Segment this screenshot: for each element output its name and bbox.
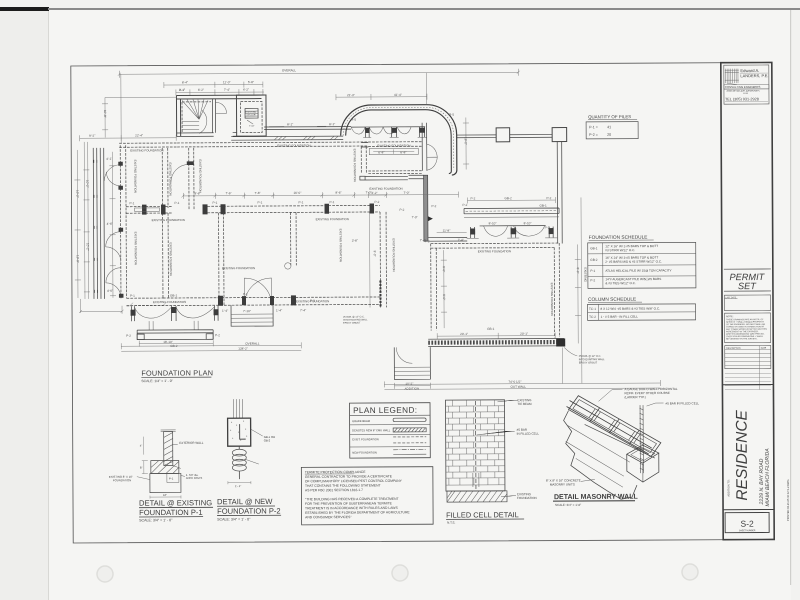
svg-text:AS PER FBC 2001 SECTION 1: AS PER FBC 2001 SECTION 1816.1.7	[305, 488, 363, 492]
svg-text:74'-0 1/2": 74'-0 1/2"	[508, 380, 521, 384]
svg-text:PLAN LEGEND:: PLAN LEGEND:	[353, 406, 417, 415]
leader: exterior wall	[173, 443, 178, 445]
svg-text:FOUNDATION P-2: FOUNDATION P-2	[217, 506, 281, 515]
quantity of piles table	[586, 114, 638, 139]
svg-text:EXISTING FOUNDATION: EXISTING FOUNDATION	[130, 148, 163, 152]
door swings on left wall	[104, 165, 120, 181]
svg-text:8'-1": 8'-1"	[287, 122, 293, 126]
addition stair bottom-center	[394, 347, 430, 391]
svg-text:10'-2": 10'-2"	[85, 180, 89, 188]
svg-text:ANCR BOLTS: ANCR BOLTS	[186, 476, 203, 480]
stair block bottom wall	[177, 133, 237, 137]
svg-text:EXISTING FOUNDATION: EXISTING FOUNDATION	[392, 238, 396, 271]
long diagonal reinf	[585, 424, 655, 458]
corridor beam between cellar and curve	[264, 127, 351, 130]
residence section box	[722, 384, 774, 509]
svg-text:FOUNDATION P-1: FOUNDATION P-1	[139, 508, 203, 517]
svg-text:4'-2": 4'-2"	[243, 88, 249, 92]
svg-text:SCALE: 3/4" = 1' - 0": SCALE: 3/4" = 1' - 0"	[217, 517, 251, 521]
svg-text:41: 41	[607, 125, 611, 129]
termite note box	[301, 467, 433, 525]
svg-text:21'-3": 21'-3"	[347, 93, 355, 97]
svg-text:2- #5 BARS MID & #3 STIRR W/12: 2- #5 BARS MID & #3 STIRR W/12" O.C.	[605, 260, 662, 264]
anchor detail marks	[173, 465, 181, 468]
svg-text:PRINTED 04-21-05 10:12 S-2.: PRINTED 04-21-05 10:12 S-2.DWG	[786, 479, 790, 521]
top beam + dims of colonnade	[467, 197, 555, 203]
svg-text:7'-10": 7'-10"	[249, 126, 255, 128]
svg-text:16": 16"	[163, 493, 167, 497]
svg-text:TEL (305) 931-2928: TEL (305) 931-2928	[725, 97, 759, 101]
leader existing foundation	[501, 496, 516, 497]
interior left rooms walls	[126, 148, 173, 298]
svg-text:P-2: P-2	[546, 196, 551, 200]
svg-text:P-1: P-1	[329, 200, 334, 204]
front rail lines	[567, 400, 652, 454]
svg-text:OUT WALL: OUT WALL	[510, 385, 526, 389]
svg-text:P-2: P-2	[463, 203, 468, 207]
svg-text:#5 BAR IN FILLED CELL: #5 BAR IN FILLED CELL	[666, 401, 700, 405]
svg-text:8'-0": 8'-0"	[442, 294, 446, 300]
svg-text:TC-1: TC-1	[589, 307, 596, 311]
svg-text:SCALE: 1/4" = 1' - 0": SCALE: 1/4" = 1' - 0"	[141, 379, 173, 383]
svg-text:P-1: P-1	[590, 269, 595, 273]
leader #5 bar	[477, 431, 515, 435]
svg-text:P-1: P-1	[129, 201, 134, 205]
svg-text:10'-2": 10'-2"	[75, 190, 79, 198]
dim row over curve	[336, 94, 427, 100]
svg-text:EXISTING FOUNDATION: EXISTING FOUNDATION	[222, 266, 255, 270]
long bottom dim line	[384, 380, 660, 387]
svg-text:#3 STIRR W/12" O.C.: #3 STIRR W/12" O.C.	[605, 248, 635, 252]
svg-text:10'-2": 10'-2"	[86, 243, 90, 251]
svg-text:P-2: P-2	[432, 204, 437, 208]
svg-text:9'-6": 9'-6"	[194, 191, 200, 195]
svg-text:P-1: P-1	[257, 201, 262, 205]
svg-text:GB-1: GB-1	[487, 327, 495, 331]
svg-text:R-5: R-5	[449, 113, 454, 117]
svg-text:& #3 TIES W/12" O.C.: & #3 TIES W/12" O.C.	[605, 281, 636, 285]
svg-text:8'-1": 8'-1"	[329, 122, 335, 126]
svg-text:4": 4"	[140, 444, 143, 448]
hatched grade beam under corridor	[231, 136, 343, 140]
title block border	[721, 62, 774, 539]
logo hatch grid	[725, 69, 739, 85]
svg-text:4'-6": 4'-6"	[107, 222, 113, 226]
svg-text:20'-1": 20'-1"	[520, 332, 528, 336]
inner dashed room	[219, 213, 224, 306]
overall top dimension line	[118, 69, 520, 78]
svg-text:P-2: P-2	[374, 200, 379, 204]
svg-text:P-1 =: P-1 =	[589, 125, 598, 129]
svg-text:GB-1: GB-1	[590, 246, 598, 250]
svg-text:EXISTING FOUNDATION: EXISTING FOUNDATION	[198, 159, 202, 192]
walls below kitchen	[365, 176, 408, 180]
svg-text:DETAIL @ EXISTING: DETAIL @ EXISTING	[139, 498, 212, 507]
dims	[368, 192, 458, 198]
svg-text:GB-1: GB-1	[540, 204, 548, 208]
swag drapes	[135, 307, 172, 318]
svg-text:AND CONSUMER SERVICES": AND CONSUMER SERVICES"	[305, 515, 352, 519]
svg-text:7'-6": 7'-6"	[225, 191, 231, 195]
brick wall outline	[446, 400, 505, 491]
grade beam GB-2	[137, 330, 213, 340]
jamb blocks	[118, 162, 123, 166]
right-mid vertical wall	[370, 211, 396, 307]
svg-text:SET: SET	[738, 281, 757, 291]
svg-text:8'-10": 8'-10"	[524, 221, 532, 225]
right vertical dim chains	[561, 197, 581, 383]
leader cmu label	[581, 479, 595, 481]
revision table	[725, 345, 771, 368]
svg-text:8'-4": 8'-4"	[182, 80, 188, 84]
inner dashed offset	[182, 102, 211, 133]
svg-text:DETAIL @ NEW: DETAIL @ NEW	[217, 497, 273, 506]
door blocks on mid wall	[142, 205, 147, 215]
dim extension vertical at curve start	[425, 73, 427, 105]
plan legend box	[350, 403, 431, 458]
svg-text:SCALE: 3/4" = 1'-0": SCALE: 3/4" = 1'-0"	[555, 503, 581, 507]
overall bottom dim line of left part	[121, 342, 301, 349]
main top wall of middle room	[177, 142, 368, 148]
svg-text:FOUNDATION: FOUNDATION	[517, 496, 537, 500]
svg-text:6'-2": 6'-2"	[198, 88, 204, 92]
svg-text:EXISTING FOUNDATION: EXISTING FOUNDATION	[550, 283, 554, 316]
svg-text:8'-10": 8'-10"	[489, 221, 497, 225]
second bottom dim row	[121, 349, 660, 391]
leader #5 bar in filled cell	[647, 403, 664, 406]
svg-text:41'-4": 41'-4"	[394, 93, 402, 97]
steps stoop below middle wall	[222, 305, 306, 326]
left exterior wall	[120, 145, 173, 298]
sheet frame	[71, 62, 774, 543]
svg-text:P-2: P-2	[310, 299, 315, 303]
dim left	[142, 461, 148, 474]
svg-text:P-2: P-2	[590, 278, 595, 282]
inner porch dim vertical	[109, 152, 116, 298]
left outer dim chain	[74, 150, 81, 298]
svg-text:QUANTITY OF PILES: QUANTITY OF PILES	[588, 114, 631, 119]
colonnade swag arches	[484, 226, 508, 237]
paper left edge line	[48, 11, 49, 600]
svg-text:GB-2: GB-2	[590, 258, 598, 262]
svg-text:S-2: S-2	[740, 519, 754, 529]
svg-text:DATE: DATE	[761, 347, 767, 350]
svg-text:3'-1": 3'-1"	[179, 88, 185, 92]
svg-text:TC-2: TC-2	[589, 315, 596, 319]
svg-text:EXISTING FOUNDATION: EXISTING FOUNDATION	[169, 242, 173, 275]
svg-text:1 - # 5 BAR - IN FILL CELL: 1 - # 5 BAR - IN FILL CELL	[601, 315, 639, 319]
svg-text:OVERALL: OVERALL	[245, 342, 260, 346]
svg-text:EXISTING FOUNDATION: EXISTING FOUNDATION	[168, 162, 172, 195]
leader existing tie beam	[498, 400, 518, 402]
svg-text:6'-8": 6'-8"	[378, 150, 384, 154]
foundation block	[150, 473, 181, 492]
punch hole bottom center	[392, 565, 408, 581]
svg-text:10'-8": 10'-8"	[103, 110, 107, 118]
pointed double door arch	[244, 278, 271, 305]
svg-text:EPOXY GROUT: EPOXY GROUT	[579, 361, 598, 364]
wall between left rooms	[126, 206, 172, 213]
svg-text:7'-8": 7'-8"	[254, 191, 260, 195]
paper right edge line	[790, 10, 791, 585]
svg-text:9'-0": 9'-0"	[373, 250, 377, 256]
svg-text:7'-4": 7'-4"	[224, 88, 230, 92]
svg-text:GB-2: GB-2	[504, 196, 512, 200]
svg-text:EXISTING FOUNDATION: EXISTING FOUNDATION	[478, 249, 511, 253]
svg-text:SHEET NUMBER: SHEET NUMBER	[739, 530, 756, 532]
hatched foundation	[447, 491, 507, 502]
consulting engineer lines	[724, 84, 769, 89]
svg-text:3'-8": 3'-8"	[352, 239, 358, 243]
detail P-1 drawing: hatched exterior wall	[109, 430, 204, 499]
svg-text:P-1: P-1	[130, 294, 135, 298]
svg-text:CONSULTING ENGINEERS: CONSULTING ENGINEERS	[725, 85, 761, 89]
svg-text:1'-4": 1'-4"	[222, 309, 228, 313]
date box	[724, 295, 770, 311]
svg-text:8 X 12 W/4 -#5 BARS & #3 TIES: 8 X 12 W/4 -#5 BARS & #3 TIES W/8" O.C.	[601, 307, 661, 311]
svg-text:11'-8": 11'-8"	[443, 229, 451, 233]
svg-text:IN FILLED CELL: IN FILLED CELL	[517, 432, 540, 436]
svg-text:EXIST. FOUNDATION: EXIST. FOUNDATION	[352, 437, 379, 441]
new solid wall down to colonnade	[424, 175, 428, 241]
svg-text:7'-0": 7'-0"	[365, 190, 371, 194]
svg-text:5'-8": 5'-8"	[248, 80, 254, 84]
svg-text:EXISTING FOUNDATION: EXISTING FOUNDATION	[377, 144, 410, 148]
note: dwl into existing wall	[343, 316, 368, 325]
svg-text:8'-0": 8'-0"	[442, 266, 446, 272]
second dim row (stair block)	[164, 82, 264, 96]
svg-text:P-2: P-2	[400, 208, 405, 212]
svg-text:11'-0": 11'-0"	[223, 80, 231, 84]
foundation schedule	[588, 234, 696, 288]
svg-text:8": 8"	[140, 466, 143, 470]
dim bottom	[150, 495, 181, 498]
svg-text:16'-0": 16'-0"	[293, 191, 301, 195]
svg-text:EXISTING: EXISTING	[583, 267, 587, 282]
svg-text:P-2: P-2	[545, 226, 550, 230]
svg-text:NOTE:: NOTE:	[726, 315, 734, 318]
top black bar	[0, 7, 49, 11]
svg-text:P-2: P-2	[126, 334, 131, 338]
svg-text:MIAMI BEACH FLORIDA: MIAMI BEACH FLORIDA	[765, 448, 771, 507]
dim extension vertical left	[120, 74, 122, 143]
sheet number box	[725, 512, 769, 532]
svg-text:N.T.S.: N.T.S.	[447, 521, 455, 525]
svg-text:DESCRIPTION: DESCRIPTION	[726, 348, 741, 350]
svg-text:6'-2": 6'-2"	[371, 191, 377, 195]
svg-text:P-1: P-1	[174, 201, 179, 205]
svg-text:7'-0": 7'-0"	[412, 215, 418, 219]
double doors at curve base	[427, 144, 438, 157]
svg-text:P-2: P-2	[425, 239, 430, 243]
svg-text:20: 20	[607, 133, 611, 137]
svg-text:(LADDER TYP.): (LADDER TYP.)	[624, 395, 645, 399]
interior bottom dims	[437, 333, 555, 340]
svg-text:R-5: R-5	[351, 118, 356, 122]
svg-text:GB-1: GB-1	[170, 293, 178, 297]
wall face with ragged left edge	[564, 410, 637, 499]
stair room walls	[176, 95, 266, 136]
punch hole bottom left	[97, 566, 113, 582]
brick courses	[446, 400, 505, 485]
leaders	[251, 429, 263, 436]
svg-text:GRADE BEAM: GRADE BEAM	[352, 419, 371, 423]
svg-text:EXISTING FOUNDATION: EXISTING FOUNDATION	[153, 300, 186, 304]
equipment box	[245, 109, 258, 119]
svg-text:P-1: P-1	[298, 200, 303, 204]
svg-text:4'-1": 4'-1"	[106, 157, 112, 161]
svg-text:P-2 =: P-2 =	[589, 133, 598, 137]
punch hole bottom right	[682, 564, 698, 580]
svg-text:P-1: P-1	[243, 292, 248, 296]
svg-text:P-2: P-2	[470, 196, 475, 200]
room dashed outline	[431, 243, 559, 248]
left wing top dims	[79, 97, 177, 141]
svg-text:EXTERIOR WALL: EXTERIOR WALL	[179, 441, 204, 445]
svg-text:4'-6": 4'-6"	[107, 289, 113, 293]
svg-text:NEW FOUNDATION: NEW FOUNDATION	[352, 450, 377, 454]
detail P-2 drawing: pile cap column	[227, 399, 275, 488]
svg-text:FOUNDATION: FOUNDATION	[113, 478, 131, 482]
svg-text:10'-2": 10'-2"	[405, 382, 413, 386]
leader gauge durowall	[598, 389, 622, 401]
svg-text:ESTABLISHED BY THE FLORIDA: ESTABLISHED BY THE FLORIDA DEPARTMENT OF…	[305, 510, 410, 515]
svg-text:EXISTING FOUNDATION: EXISTING FOUNDATION	[339, 229, 343, 262]
swag drape arcs	[351, 127, 411, 134]
engineer logo box	[724, 65, 769, 104]
svg-text:7'-10": 7'-10"	[243, 309, 251, 313]
cellar room	[236, 95, 266, 136]
svg-text:EXISTING FOUNDATION: EXISTING FOUNDATION	[133, 160, 137, 193]
svg-text:7'-4": 7'-4"	[300, 308, 306, 312]
svg-text:FOUNDATION PLAN: FOUNDATION PLAN	[141, 368, 213, 377]
door posts along mid walls	[325, 204, 330, 214]
svg-text:P-1: P-1	[212, 201, 217, 205]
svg-text:EXISTING FOUNDATION: EXISTING FOUNDATION	[353, 149, 357, 182]
svg-text:7'-4": 7'-4"	[458, 238, 464, 242]
bottom wall of middle rooms	[126, 277, 381, 305]
svg-text:P-2: P-2	[215, 333, 220, 337]
lower-left swag band + grade beam	[126, 306, 220, 348]
bottom toothed grade beam	[428, 340, 564, 345]
pile ticks along porch base	[94, 160, 98, 293]
svg-text:FILLED CELL DETAIL: FILLED CELL DETAIL	[446, 510, 519, 519]
svg-text:EPOXY GROUT: EPOXY GROUT	[343, 322, 361, 325]
notes box	[725, 313, 771, 343]
note: at black column	[564, 347, 605, 364]
svg-text:BE VERIFIED ON THE JOB SITE.: BE VERIFIED ON THE JOB SITE.	[726, 338, 758, 340]
svg-text:LAST DATE: LAST DATE	[725, 296, 736, 299]
extra tick marks along interior dim	[129, 193, 388, 305]
svg-text:GB-2: GB-2	[264, 438, 271, 442]
svg-text:6'-8": 6'-8"	[400, 150, 406, 154]
filled cell detail	[445, 398, 539, 524]
svg-text:128'-2": 128'-2"	[238, 347, 248, 351]
footing hatch	[151, 460, 179, 473]
stair block top-left	[176, 95, 266, 136]
svg-text:ATLAS HELICAL PILE W/ 15@ TON: ATLAS HELICAL PILE W/ 15@ TON CAPACITY	[605, 268, 671, 272]
svg-text:EXISTING FOUNDATION: EXISTING FOUNDATION	[316, 217, 349, 221]
svg-text:22'-4": 22'-4"	[135, 133, 143, 137]
svg-text:7'-0": 7'-0"	[403, 191, 409, 195]
column squares and tie beam right	[457, 127, 568, 244]
vertical dim right of curve	[463, 117, 469, 169]
top-right room walls (kitchen area)	[353, 123, 459, 242]
svg-text:ADDITION TO:: ADDITION TO:	[726, 479, 730, 497]
svg-text:ADDITION: ADDITION	[404, 387, 419, 391]
interior dim row mid-plan	[183, 190, 386, 199]
svg-text:DETAIL MASONRY WALL: DETAIL MASONRY WALL	[554, 494, 638, 501]
column schedule	[587, 296, 695, 320]
spring pile	[238, 446, 240, 449]
svg-text:CELLAR: CELLAR	[247, 114, 256, 117]
detail masonry wall (isometric)	[545, 387, 699, 507]
svg-text:EXISTING FOUNDATION: EXISTING FOUNDATION	[152, 218, 185, 222]
svg-text:LANDERS, P.E.: LANDERS, P.E.	[740, 73, 768, 78]
svg-text:EXISTING FOUNDATION: EXISTING FOUNDATION	[277, 143, 310, 147]
cell strip top face	[569, 396, 661, 457]
left upper horizontal wall	[119, 143, 177, 147]
svg-text:DENOTES NEW 8" CMU WALL: DENOTES NEW 8" CMU WALL	[352, 428, 391, 432]
interior ticks along left wall	[443, 250, 445, 328]
svg-text:8'-0": 8'-0"	[576, 267, 580, 273]
big curved wall top right	[341, 105, 457, 176]
svg-text:EXISTING FOUNDATION: EXISTING FOUNDATION	[134, 232, 138, 265]
left scanner strip	[0, 11, 48, 600]
svg-text:OVERALL: OVERALL	[282, 68, 297, 72]
leader: anchor bolts	[181, 475, 185, 476]
middle room walls lower	[152, 203, 381, 306]
svg-text:16'-0": 16'-0"	[464, 137, 468, 145]
porch colonnade far left	[83, 142, 123, 299]
hall door arc	[215, 102, 226, 113]
svg-text:MASONRY UNITS: MASONRY UNITS	[550, 482, 575, 486]
middle room left wall	[171, 148, 203, 210]
svg-text:33180: 33180	[743, 93, 748, 95]
svg-text:P-1: P-1	[169, 476, 174, 480]
svg-text:1'-4": 1'-4"	[276, 308, 282, 312]
wall stub left of arches	[428, 237, 467, 241]
vertical rebar ladder	[640, 405, 643, 473]
svg-text:8'-6": 8'-6"	[335, 191, 341, 195]
svg-text:TIE BEAM: TIE BEAM	[518, 402, 533, 406]
stair winder treads (fan)	[182, 99, 208, 119]
svg-text:EXISTING: EXISTING	[246, 112, 257, 114]
porch width dim at bottom	[79, 299, 124, 314]
svg-text:20'-1": 20'-1"	[460, 332, 468, 336]
svg-text:19'-8": 19'-8"	[76, 255, 80, 263]
rebar dashed center	[475, 401, 477, 491]
dim bottom	[228, 481, 251, 484]
svg-text:9'-2": 9'-2"	[89, 134, 95, 138]
swag band under curve	[351, 127, 427, 138]
bottom right cell block	[627, 445, 659, 463]
svg-text:RESIDENCE: RESIDENCE	[734, 409, 751, 500]
boxed dims	[369, 148, 418, 155]
svg-text:1'- 4": 1'- 4"	[235, 484, 241, 488]
svg-text:SCALE: 3/4" = 1' - 0": SCALE: 3/4" = 1' - 0"	[139, 518, 173, 522]
permit set rules	[724, 269, 771, 291]
black column end	[556, 339, 565, 347]
lower-right big room	[427, 196, 565, 347]
